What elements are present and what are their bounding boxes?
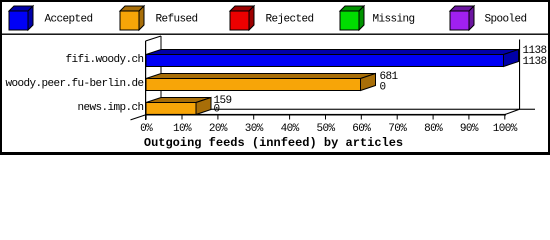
bar row1 front face (blue, 1138): [146, 55, 504, 67]
outer border bottom: [0, 152, 550, 155]
bar row2 front face (orange, 681): [146, 79, 361, 91]
legend box bottom border: [0, 34, 550, 35]
svg-text:40%: 40%: [281, 123, 300, 135]
outer border right: [548, 0, 550, 155]
svg-text:0: 0: [380, 82, 386, 94]
front y-axis: [145, 41, 146, 120]
legend cube Refused (orange): [120, 6, 144, 30]
svg-text:30%: 30%: [245, 123, 264, 135]
svg-text:Missing: Missing: [373, 14, 415, 26]
bar row2 woody.peer.fu-berlin.de top face: [146, 74, 376, 79]
legend cube Accepted (blue): [9, 6, 33, 30]
svg-text:70%: 70%: [388, 123, 407, 135]
back bottom floor line: [161, 109, 535, 110]
legend cube Missing (green): [340, 6, 364, 30]
svg-text:Rejected: Rejected: [266, 14, 314, 26]
svg-text:fifi.woody.ch: fifi.woody.ch: [65, 54, 143, 66]
bar row2 end face: [361, 74, 376, 91]
back right vertical: [519, 40, 520, 110]
svg-text:Outgoing feeds (innfeed) by ar: Outgoing feeds (innfeed) by articles: [144, 136, 403, 150]
svg-text:1138: 1138: [523, 56, 547, 68]
svg-text:Spooled: Spooled: [485, 14, 527, 26]
svg-text:100%: 100%: [493, 123, 518, 135]
axis top-left depth leg: [146, 36, 162, 41]
bottom-left depth leg: [131, 115, 146, 120]
legend cube Spooled (purple): [450, 6, 474, 30]
svg-text:woody.peer.fu-berlin.de: woody.peer.fu-berlin.de: [5, 78, 143, 90]
bar row1 fifi.woody.ch top face: [146, 50, 519, 55]
bar row3 end face: [196, 98, 211, 115]
outer border left: [0, 0, 2, 155]
bar row1 end face: [504, 50, 519, 67]
bar row3 front face (orange, 159): [146, 103, 196, 115]
svg-text:news.imp.ch: news.imp.ch: [77, 102, 143, 114]
bottom-right depth leg: [505, 109, 520, 114]
svg-text:20%: 20%: [209, 123, 228, 135]
x tick labels: [140, 123, 518, 135]
x-axis front line: [145, 114, 506, 116]
back y-axis (left, depth): [161, 36, 162, 110]
svg-text:0: 0: [214, 104, 220, 116]
svg-text:10%: 10%: [173, 123, 192, 135]
svg-text:Accepted: Accepted: [45, 14, 93, 26]
svg-text:90%: 90%: [460, 123, 479, 135]
svg-text:60%: 60%: [352, 123, 371, 135]
svg-text:0%: 0%: [140, 123, 153, 135]
bar row3 news.imp.ch top face: [146, 98, 211, 103]
svg-text:Refused: Refused: [156, 14, 198, 26]
x-axis ticks: [146, 115, 506, 120]
outer border top: [0, 0, 550, 2]
svg-text:80%: 80%: [424, 123, 443, 135]
legend cube Rejected (red): [230, 6, 254, 30]
svg-text:50%: 50%: [316, 123, 335, 135]
